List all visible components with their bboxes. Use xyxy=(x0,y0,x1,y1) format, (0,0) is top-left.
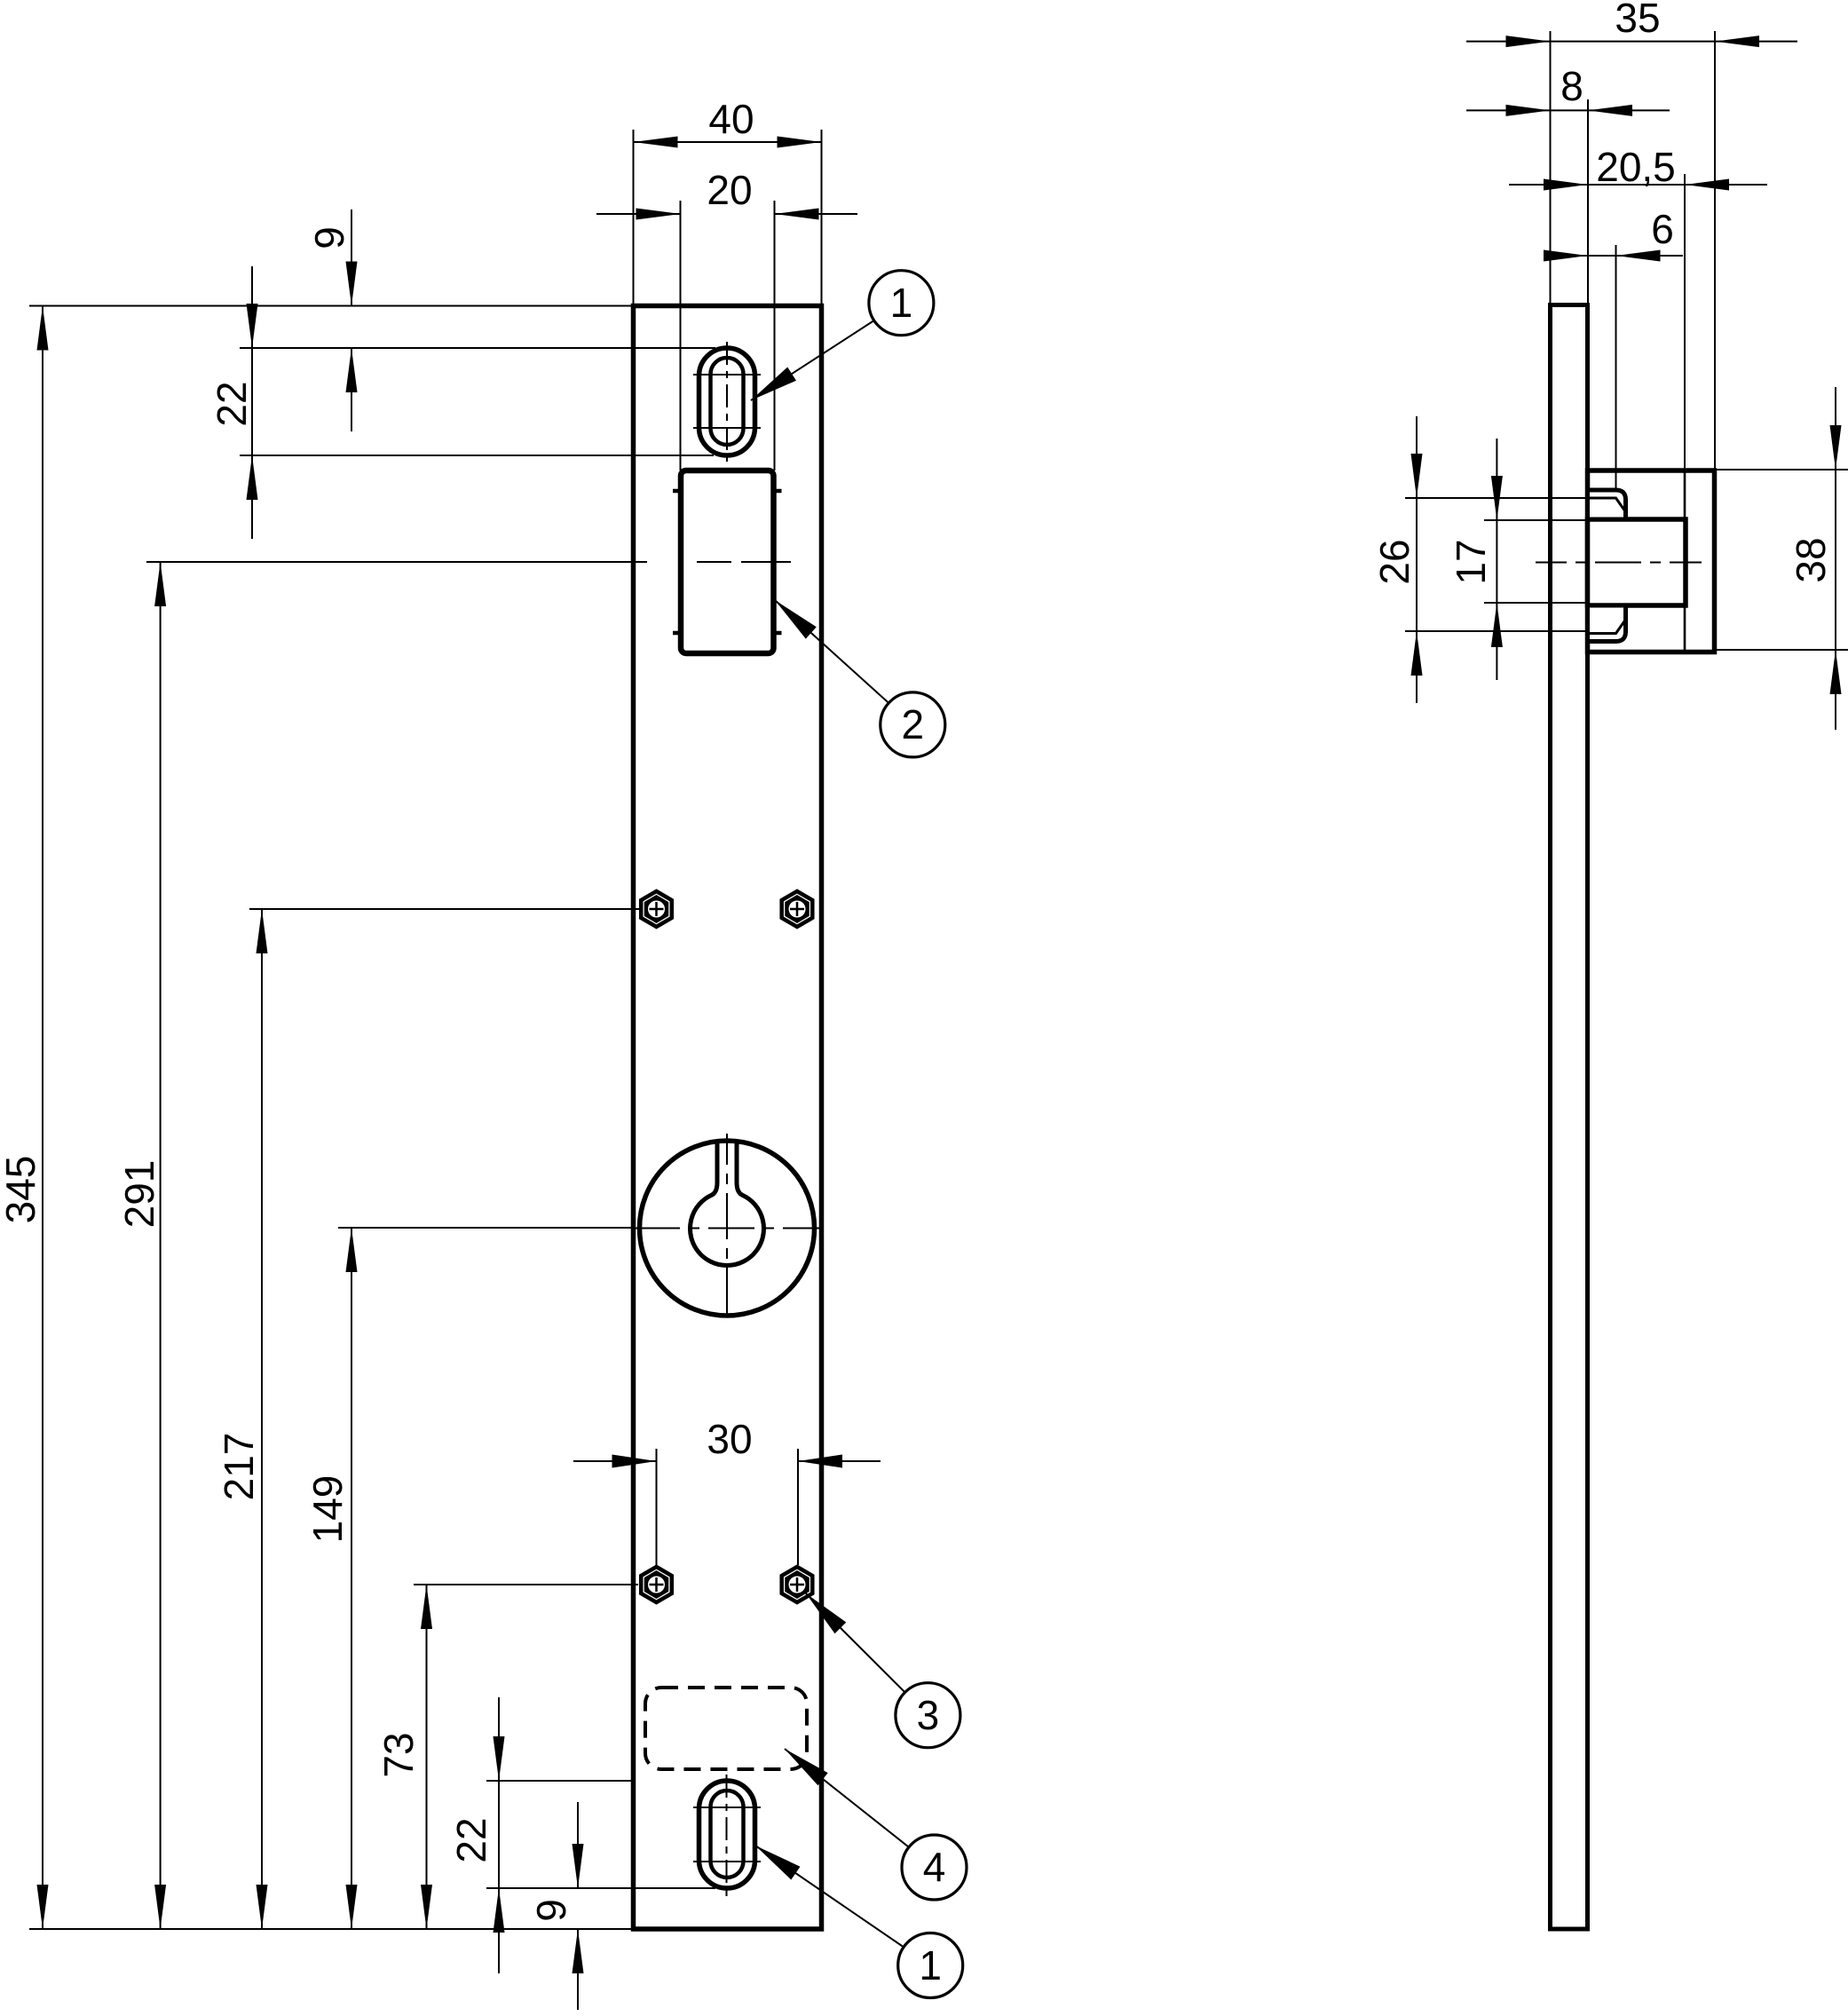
svg-text:1: 1 xyxy=(890,280,913,326)
arrows dim 17 xyxy=(1491,476,1503,520)
svg-text:40: 40 xyxy=(708,96,754,142)
svg-text:17: 17 xyxy=(1448,539,1494,584)
callout 1 bottom leader xyxy=(755,1846,904,1947)
callout 3 circle xyxy=(896,1683,960,1748)
dim 345 extension top xyxy=(29,305,634,307)
arrows dim 40 xyxy=(634,137,678,148)
dim 35 extension lines xyxy=(1551,31,1716,470)
dim 22 bottom extension lines xyxy=(486,1781,715,1888)
svg-text:9: 9 xyxy=(306,226,352,249)
arrows dim 9 top xyxy=(346,262,358,306)
svg-text:149: 149 xyxy=(304,1475,351,1544)
svg-text:6: 6 xyxy=(1651,206,1674,252)
dim 6 extension line xyxy=(1615,245,1617,490)
dim 149 line xyxy=(351,1228,352,1929)
dim 9 top extension line xyxy=(240,347,715,349)
faceplate bar side xyxy=(1551,305,1588,1930)
svg-text:20,5: 20,5 xyxy=(1596,144,1676,190)
latch stake marks xyxy=(673,491,782,633)
spindle hub xyxy=(1588,519,1686,605)
top tab fold line xyxy=(1588,498,1625,511)
hex screw middle right xyxy=(782,891,813,927)
svg-text:9: 9 xyxy=(528,1899,574,1922)
svg-text:38: 38 xyxy=(1788,537,1834,582)
svg-text:30: 30 xyxy=(707,1416,752,1462)
callout 1 top leader xyxy=(751,320,874,400)
dim 22 top extension line xyxy=(240,455,714,456)
dim 38 extension lines xyxy=(1715,470,1848,650)
svg-text:8: 8 xyxy=(1560,63,1583,109)
arrows dim 217 xyxy=(257,909,268,953)
bottom slot outer oblong xyxy=(699,1781,755,1888)
svg-text:345: 345 xyxy=(0,1156,43,1224)
top slot outer oblong xyxy=(699,348,755,455)
callout 1 bottom circle xyxy=(898,1933,963,1998)
latch opening xyxy=(681,470,774,653)
dim 26 line xyxy=(1416,416,1418,703)
dim 20,5 line xyxy=(1509,184,1767,186)
svg-text:22: 22 xyxy=(448,1817,494,1862)
hex screw lower left xyxy=(641,1567,672,1602)
bottom slot center ticks xyxy=(693,1807,761,1862)
arrows dim 22 bottom xyxy=(494,1736,505,1781)
callout 4 circle xyxy=(902,1835,967,1900)
svg-text:4: 4 xyxy=(923,1844,946,1890)
dim 20 extension lines xyxy=(681,201,775,470)
lock case block xyxy=(1588,470,1715,652)
dim 291 line xyxy=(160,562,162,1929)
svg-text:20: 20 xyxy=(707,167,752,213)
latch dashed centerline xyxy=(697,561,791,563)
svg-text:3: 3 xyxy=(917,1692,940,1738)
dim 217 line xyxy=(261,909,263,1929)
arrows dim 20 xyxy=(636,209,681,220)
dim 30 line xyxy=(573,1460,881,1462)
svg-text:2: 2 xyxy=(902,701,925,747)
bottom slot vertical centerline xyxy=(726,1775,728,1896)
top slot center ticks xyxy=(693,375,761,428)
block inner face line xyxy=(1684,470,1686,652)
dim 73 line xyxy=(426,1585,428,1929)
cylinder hole outer circle xyxy=(640,1141,815,1316)
callout 3 leader xyxy=(806,1593,905,1692)
dim 8 extension line xyxy=(1587,99,1589,305)
top slot vertical centerline xyxy=(726,342,728,462)
svg-text:26: 26 xyxy=(1371,539,1418,584)
dim 9 bottom line xyxy=(577,1802,579,2010)
dim 22 top line xyxy=(251,266,253,539)
dim 35 line xyxy=(1466,41,1797,43)
dim 40 extension lines xyxy=(634,130,822,306)
dim 345 extension bottom baseline xyxy=(29,1928,634,1930)
top tab xyxy=(1588,490,1626,519)
arrows dim 8 xyxy=(1506,105,1551,116)
dim 9 top line xyxy=(351,210,352,431)
bottom tab xyxy=(1588,605,1626,642)
callout 1 top circle xyxy=(869,271,934,336)
dim 17 line xyxy=(1496,439,1497,680)
callout 4 leader xyxy=(785,1749,909,1847)
dim 345 line xyxy=(42,306,43,1930)
dashed rectangle (item 4) xyxy=(645,1688,807,1769)
callout 2 circle xyxy=(881,692,945,757)
svg-text:22: 22 xyxy=(209,381,255,426)
dim 26 extension lines xyxy=(1405,498,1588,631)
dim 38 line xyxy=(1835,387,1836,730)
dim 8 line xyxy=(1466,109,1670,111)
dim 20,5 extension line xyxy=(1684,174,1686,470)
dim 22 bottom line xyxy=(498,1697,500,1973)
cylinder vertical centerline xyxy=(726,1134,728,1314)
arrows dim 149 xyxy=(346,1228,358,1272)
dim 149 extension xyxy=(338,1227,634,1229)
faceplate outline xyxy=(634,306,822,1930)
dim 17 extension lines xyxy=(1484,520,1588,603)
dim 20 line xyxy=(596,213,857,215)
arrows dim 20,5 xyxy=(1544,179,1588,191)
svg-text:217: 217 xyxy=(216,1433,262,1501)
hex screw lower right xyxy=(782,1567,813,1602)
arrows dim 38 xyxy=(1830,425,1842,470)
dim 6 line xyxy=(1544,255,1683,257)
arrows dim 345 xyxy=(37,306,49,351)
arrows dim 6 xyxy=(1544,250,1588,262)
hex screw middle left xyxy=(641,891,672,927)
arrows dim 73 xyxy=(421,1585,432,1629)
bottom slot inner oblong xyxy=(711,1791,744,1878)
arrows dim 35 xyxy=(1506,36,1551,47)
dim 217 extension xyxy=(249,908,639,910)
arrows dim 26 xyxy=(1411,454,1423,498)
arrows dim 30 xyxy=(612,1455,657,1468)
bottom tab fold line xyxy=(1588,621,1625,634)
dim 30 extension lines xyxy=(657,1449,799,1565)
callout 2 leader xyxy=(775,600,888,703)
arrows dim 291 xyxy=(154,562,166,606)
arrows dim 9 bottom xyxy=(573,1844,584,1888)
cylinder horizontal centerline xyxy=(634,1228,821,1229)
svg-text:35: 35 xyxy=(1615,0,1660,41)
dim 73 extension xyxy=(414,1584,638,1585)
svg-text:1: 1 xyxy=(919,1942,942,1988)
cylinder keyhole (inner hole with keyway slot) xyxy=(690,1141,763,1265)
dim 40 line xyxy=(634,141,822,143)
top slot inner oblong xyxy=(711,358,744,445)
spindle centerline xyxy=(1536,562,1702,564)
arrows dim 22 top xyxy=(247,304,258,348)
dim 291 extension xyxy=(146,561,647,563)
svg-text:291: 291 xyxy=(116,1160,162,1229)
svg-text:73: 73 xyxy=(375,1732,422,1777)
